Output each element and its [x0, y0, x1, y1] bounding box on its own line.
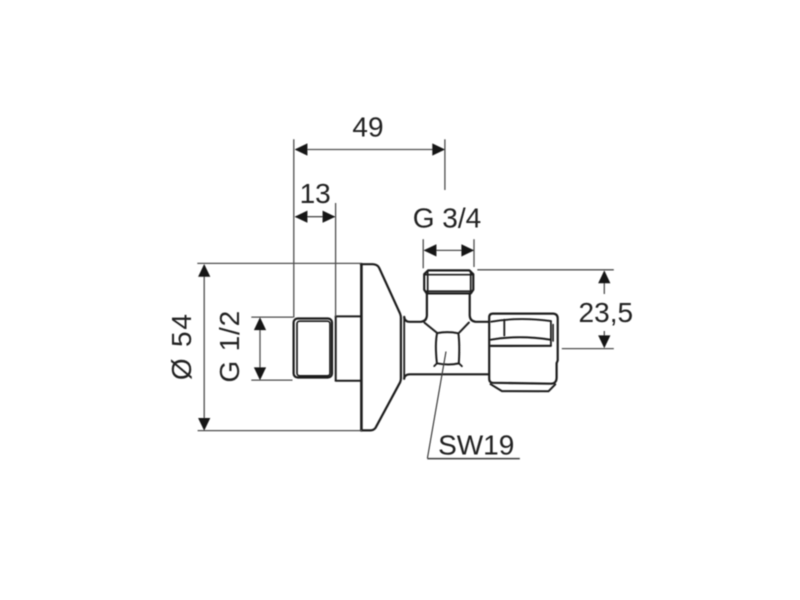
- svg-text:G 1/2: G 1/2: [214, 310, 245, 382]
- svg-text:SW19: SW19: [438, 429, 514, 460]
- svg-text:G 3/4: G 3/4: [413, 202, 481, 233]
- svg-text:23,5: 23,5: [579, 297, 634, 328]
- svg-text:Ø 54: Ø 54: [166, 312, 197, 380]
- svg-text:49: 49: [352, 112, 383, 143]
- svg-text:13: 13: [300, 178, 331, 209]
